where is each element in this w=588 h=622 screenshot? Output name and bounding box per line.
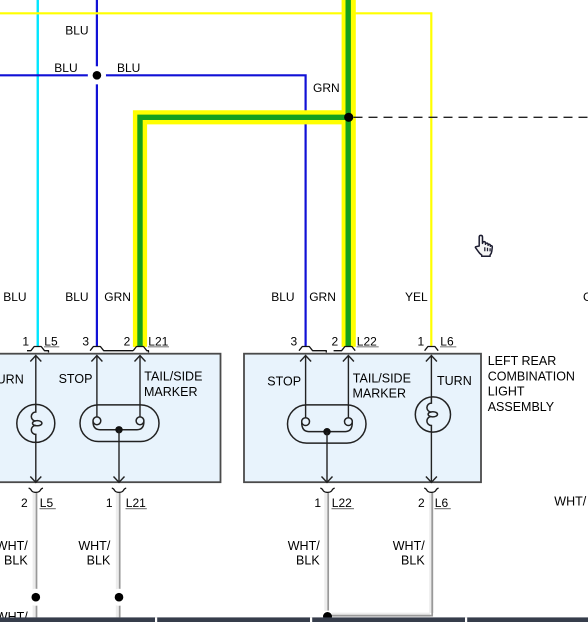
svg-text:1: 1	[418, 335, 425, 349]
svg-text:BLK: BLK	[87, 554, 111, 568]
right box pin2(bottom) stem + arrow	[426, 432, 437, 482]
svg-text:LEFT REAR: LEFT REAR	[488, 354, 557, 368]
connector bump pin3 left + tail to L21	[90, 347, 133, 351]
bottom connector cup L21	[112, 488, 126, 492]
svg-text:GRN: GRN	[313, 81, 340, 95]
left box pin1 down stem + arrow	[30, 442, 41, 482]
connector bump L6	[425, 347, 439, 351]
svg-text:2: 2	[21, 496, 28, 510]
svg-text:1: 1	[314, 496, 321, 510]
svg-text:TAIL/SIDE: TAIL/SIDE	[353, 372, 411, 386]
wire GRN/YEL thick vertical to L22	[342, 0, 356, 347]
left lamp box	[0, 354, 221, 483]
splice dot L21 wire	[115, 593, 124, 602]
right box pin3 arrow up + stem	[300, 356, 311, 418]
bottom connector cup L22	[320, 488, 334, 492]
connector bump pin3 right	[299, 347, 326, 353]
ground bus bar bottom	[0, 617, 588, 622]
left box pin2 arrow up + stem	[135, 356, 146, 417]
junction dot in right stadium	[323, 428, 330, 435]
svg-text:L21: L21	[126, 496, 146, 510]
svg-text:WHT/: WHT/	[393, 539, 425, 553]
svg-text:TURN: TURN	[0, 372, 24, 386]
wire BLU horizontal then down to right box pin 3	[0, 75, 306, 346]
splice dot L5 wire	[32, 593, 41, 602]
svg-text:BLU: BLU	[3, 290, 26, 304]
right box pin1 arrow up + stem	[426, 356, 437, 397]
connector bump L22	[334, 347, 356, 351]
bottom connector cup L6	[424, 488, 438, 492]
right box common stem down + arrow	[322, 432, 333, 483]
svg-text:LIGHT: LIGHT	[488, 385, 525, 399]
svg-text:L22: L22	[332, 496, 352, 510]
wire BLU vertical to left box pin 3	[96, 0, 98, 346]
svg-text:MARKER: MARKER	[353, 387, 406, 401]
svg-text:BLK: BLK	[401, 554, 425, 568]
svg-text:BLU: BLU	[117, 61, 140, 75]
svg-text:L6: L6	[435, 496, 449, 510]
left box pin3 arrow up + stem	[91, 356, 102, 417]
wire WHT/BLK from L5	[33, 493, 38, 617]
svg-text:3: 3	[82, 335, 89, 349]
connector bump L21	[133, 347, 148, 353]
wire YEL thin: horizontal top then down to L6	[0, 13, 431, 346]
svg-text:TURN: TURN	[437, 374, 472, 388]
green core of thick branch	[140, 117, 349, 347]
wire GRN/YEL thick branch to L21	[140, 117, 349, 347]
svg-text:WHT/: WHT/	[554, 495, 586, 509]
junction dot GRN/YEL	[344, 113, 353, 122]
junction dot BLU	[93, 71, 102, 80]
svg-text:2: 2	[332, 335, 339, 349]
svg-text:WHT/: WHT/	[78, 539, 110, 553]
bus gap 3	[465, 617, 467, 622]
left box common stem down + arrow	[114, 430, 125, 483]
right box pin2 arrow up + stem	[343, 356, 354, 418]
svg-text:WHT/: WHT/	[0, 539, 28, 553]
stop/tail dual filament bulb right	[288, 405, 367, 443]
svg-text:MARKER: MARKER	[144, 385, 197, 399]
left box pin1 arrow up + stem	[30, 356, 41, 405]
svg-text:ASSEMBLY: ASSEMBLY	[488, 400, 555, 414]
mouse hand cursor	[475, 235, 492, 256]
svg-text:3: 3	[291, 335, 298, 349]
dashed line from junction to right edge	[354, 116, 588, 118]
svg-text:GRN: GRN	[309, 290, 336, 304]
svg-text:BLU: BLU	[65, 290, 88, 304]
svg-text:GRN: GRN	[583, 290, 588, 304]
svg-text:BLK: BLK	[296, 554, 320, 568]
splice dot L22/L6 junction	[323, 612, 332, 621]
stop/tail dual filament bulb left	[80, 405, 159, 442]
svg-text:WHT/: WHT/	[288, 539, 320, 553]
bottom connector cup L5	[29, 488, 43, 492]
svg-text:1: 1	[22, 335, 29, 349]
svg-text:BLU: BLU	[54, 61, 77, 75]
svg-text:2: 2	[418, 496, 425, 510]
svg-text:BLK: BLK	[4, 554, 28, 568]
svg-text:BLU: BLU	[271, 290, 294, 304]
svg-text:1: 1	[106, 496, 113, 510]
wire WHT/BLK from L6	[332, 493, 434, 617]
svg-text:STOP: STOP	[267, 375, 301, 389]
bus gap 1	[155, 617, 157, 622]
connector bump L5	[27, 347, 49, 353]
wire LT BLU (cyan) vertical to L5	[37, 0, 39, 346]
turn bulb left	[17, 404, 55, 442]
right lamp box	[244, 354, 481, 483]
turn bulb right	[415, 397, 450, 433]
svg-text:STOP: STOP	[59, 372, 93, 386]
wire WHT/BLK from L22	[324, 493, 329, 611]
svg-text:L5: L5	[40, 496, 54, 510]
svg-text:2: 2	[124, 335, 131, 349]
svg-text:GRN: GRN	[104, 290, 131, 304]
svg-text:COMBINATION: COMBINATION	[488, 369, 575, 383]
wire WHT/BLK from L21	[116, 493, 121, 617]
svg-text:YEL: YEL	[405, 290, 428, 304]
svg-text:TAIL/SIDE: TAIL/SIDE	[144, 369, 202, 383]
green core of thick vertical	[346, 0, 351, 347]
svg-text:BLU: BLU	[65, 23, 88, 37]
junction dot in left stadium	[115, 426, 122, 433]
bus gap 2	[310, 617, 312, 622]
